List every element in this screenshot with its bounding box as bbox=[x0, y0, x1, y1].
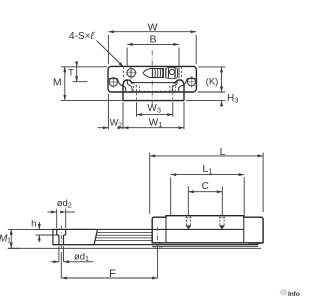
svg-text:M: M bbox=[53, 76, 62, 88]
svg-text:L1: L1 bbox=[202, 163, 212, 176]
svg-text:ød1: ød1 bbox=[74, 251, 89, 263]
svg-text:F: F bbox=[109, 268, 116, 280]
svg-text:ød2: ød2 bbox=[57, 198, 72, 210]
svg-text:(K): (K) bbox=[206, 76, 219, 87]
svg-text:W3: W3 bbox=[147, 103, 161, 115]
svg-text:Infoqu: Infoqu bbox=[288, 291, 300, 298]
svg-text:C: C bbox=[202, 181, 209, 192]
svg-text:H3: H3 bbox=[227, 93, 238, 105]
svg-text:W1: W1 bbox=[149, 117, 163, 129]
svg-text:4-S×ℓ': 4-S×ℓ' bbox=[69, 31, 95, 42]
svg-text:W: W bbox=[148, 22, 158, 34]
svg-text:1: 1 bbox=[7, 238, 11, 245]
svg-text:B: B bbox=[149, 34, 156, 46]
svg-text:W2: W2 bbox=[110, 118, 123, 130]
svg-text:T: T bbox=[68, 68, 74, 78]
svg-text:h: h bbox=[31, 218, 36, 229]
svg-text:L: L bbox=[220, 146, 226, 158]
